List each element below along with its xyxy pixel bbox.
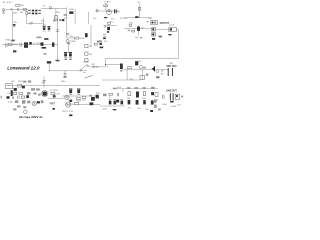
wire PI vert <box>137 25 139 35</box>
capacitor C35 faint <box>143 100 146 104</box>
svg-text:HI LO: HI LO <box>7 2 13 4</box>
svg-text:STBY: STBY <box>83 62 89 64</box>
resistor R20 <box>155 93 158 97</box>
capacitor C28 <box>162 95 164 99</box>
wire psu mid <box>48 97 64 99</box>
jack tip mark <box>181 96 183 98</box>
resistor R21 <box>74 102 78 104</box>
svg-text:1M: 1M <box>21 5 24 7</box>
svg-text:8R: 8R <box>92 64 95 66</box>
wire plate <box>41 7 66 9</box>
resistor R3 <box>23 9 27 11</box>
dark mark right of lamp <box>37 101 40 103</box>
pot VR2 <box>96 9 98 12</box>
tube V1b plate bars <box>35 10 37 12</box>
wire spk <box>159 68 168 70</box>
tube V1a grid bars <box>28 9 30 11</box>
svg-text:bias: bias <box>130 78 134 80</box>
connector P2 dark <box>11 90 13 96</box>
edge mark faint <box>1 96 2 99</box>
dark mark <box>100 47 104 49</box>
resistor R8 <box>129 25 132 27</box>
svg-text:SPK OUT: SPK OUT <box>166 66 177 68</box>
psu row2 <box>7 96 10 99</box>
resistor R16 <box>13 92 17 94</box>
wire row3 <box>124 28 152 30</box>
svg-text:TONE: TONE <box>70 41 76 43</box>
cathode resistor R4 <box>26 11 28 14</box>
dark mark below 6.3V box <box>53 95 56 97</box>
wire volume drop <box>55 8 57 19</box>
capacitor C9 dark <box>107 27 110 30</box>
wire pair <box>74 9 76 24</box>
svg-text:HTR: HTR <box>14 102 19 104</box>
switch SW3 diagonal <box>85 75 93 78</box>
capacitor C31 electrolytic <box>113 99 116 101</box>
resistor R13 <box>85 44 88 47</box>
resistor R39 <box>85 58 88 61</box>
capacitor C12 <box>5 43 7 47</box>
svg-text:fb 47k: fb 47k <box>136 61 143 63</box>
marks small <box>146 74 149 76</box>
wire corner <box>49 64 86 71</box>
resistor R1 68k <box>16 5 20 7</box>
marks above text <box>43 80 46 82</box>
svg-text:100R: 100R <box>171 106 176 108</box>
ground mid <box>55 59 59 61</box>
svg-text:47u 450V: 47u 450V <box>65 104 75 106</box>
speaker circle <box>156 70 159 73</box>
capacitor C17 electrolytic <box>69 52 72 54</box>
resistor R15 <box>128 67 132 69</box>
psu chain marks rail <box>127 87 130 89</box>
capacitor C33 dark <box>128 100 131 104</box>
wire drop right <box>141 69 143 80</box>
resistor R17 <box>109 93 113 95</box>
ground jack <box>168 34 171 36</box>
lamp LP3 upper <box>65 95 70 100</box>
svg-text:all caps 630V dc: all caps 630V dc <box>19 115 43 119</box>
marks top screen <box>67 42 70 44</box>
capacitor C25 dark <box>116 100 119 103</box>
marks right <box>103 94 107 97</box>
svg-text:FUSE: FUSE <box>8 93 14 95</box>
rectifier V2 envelope <box>42 91 48 97</box>
capacitor C36 dark <box>151 100 154 104</box>
svg-text:GND: GND <box>5 39 10 41</box>
tube pin circle <box>139 66 142 69</box>
svg-text:450V: 450V <box>77 100 82 102</box>
mark dark <box>69 114 72 116</box>
wire drop mid <box>57 22 59 60</box>
node dot <box>49 6 52 9</box>
wire cathode bus <box>27 23 44 25</box>
svg-text:PT 325V: PT 325V <box>50 90 59 92</box>
switch SW1 <box>80 70 81 71</box>
wire drop left <box>126 69 128 80</box>
pot VR1 volume <box>55 16 58 20</box>
marks right <box>41 100 44 103</box>
capacitor C41 dark tail <box>85 33 88 37</box>
capacitor C5 <box>114 9 116 13</box>
ground symbol <box>11 39 15 41</box>
resistor mid small <box>92 66 95 68</box>
resistor R19 <box>143 92 145 96</box>
capacitor C19 dark <box>120 64 123 70</box>
capacitor C40 ticks tail <box>66 32 69 34</box>
jack stack box2 <box>152 28 156 31</box>
marks on rail <box>113 88 116 90</box>
wire cathode feed <box>43 18 45 27</box>
resistor R7 <box>108 22 111 24</box>
small mark left <box>158 109 161 111</box>
capacitor C23 electrolytic <box>69 88 72 90</box>
wire down right <box>90 25 92 46</box>
small lamp circle <box>24 110 28 114</box>
dark blob <box>90 102 94 105</box>
switch SW2 cluster <box>18 84 22 87</box>
wire bottom bus <box>102 79 140 81</box>
transformer T2 core dark <box>43 92 47 96</box>
svg-text:230V: 230V <box>18 81 23 83</box>
jack J1 input <box>2 9 4 11</box>
cluster below1 <box>69 100 72 102</box>
capacitor C26 dark <box>136 92 139 98</box>
svg-text:0.5A: 0.5A <box>8 101 13 104</box>
mark below <box>53 108 55 110</box>
transformer T1 dark <box>24 42 28 47</box>
wire tail <box>67 37 75 39</box>
svg-text:350V: 350V <box>13 44 18 46</box>
svg-text:16R: 16R <box>169 63 173 65</box>
rectifier V3 dark <box>96 95 99 99</box>
wire right <box>87 12 89 24</box>
capacitor C11 <box>100 43 102 45</box>
ground output <box>159 35 163 37</box>
lamp LP1 <box>32 101 36 105</box>
faint mark <box>44 53 47 55</box>
capacitor C32 electrolytic <box>120 99 123 101</box>
wire grid rail <box>124 17 152 19</box>
capacitor C24 electrolytic <box>77 88 80 90</box>
wire psu rail <box>62 95 96 97</box>
svg-text:to spk: to spk <box>169 24 176 27</box>
svg-text:hum: hum <box>177 104 181 106</box>
rectifier cluster dark <box>91 97 95 101</box>
dark mark <box>150 110 153 112</box>
resistor R2 grid stopper <box>10 9 12 11</box>
ground2 <box>104 16 107 18</box>
wire feedback <box>106 30 179 65</box>
capacitor C22 big <box>167 68 169 76</box>
cluster below3 <box>82 96 85 98</box>
ground spk <box>156 76 160 78</box>
wire heater cap row <box>100 105 125 107</box>
capacitor C16 electrolytic <box>64 52 67 54</box>
mark below <box>107 31 109 33</box>
jack J2 main <box>169 27 176 31</box>
dark mark below <box>152 38 155 40</box>
svg-text:Lonewand 12.0: Lonewand 12.0 <box>7 65 40 70</box>
resistor R11 <box>9 43 13 45</box>
resistor R5 <box>104 5 108 7</box>
svg-text:6.3V: 6.3V <box>56 93 61 95</box>
marks small <box>128 30 130 31</box>
wire input <box>5 8 29 10</box>
wire heater <box>79 104 100 106</box>
resistor R14 <box>85 52 88 55</box>
marks comp <box>143 67 146 69</box>
pot circle tail <box>66 39 69 42</box>
capacitor C14 <box>41 42 44 45</box>
wire lamp drop <box>43 77 45 88</box>
svg-text:B+1: B+1 <box>59 19 64 22</box>
wire stage2 <box>95 10 120 12</box>
mark below C19 <box>120 70 122 72</box>
tube V2 circle <box>107 10 112 15</box>
resistor R18 <box>128 92 131 96</box>
svg-text:HT: HT <box>51 102 55 105</box>
transformer T2 cluster <box>31 88 35 90</box>
svg-text:B+ 320V: B+ 320V <box>33 43 42 45</box>
capacitor C2 on leak <box>13 24 16 26</box>
marks left of core <box>34 93 37 95</box>
wire vert <box>53 94 55 98</box>
connector P1 box <box>5 84 12 89</box>
speaker SPK arrow <box>152 66 156 71</box>
wire drop <box>122 89 124 92</box>
wire B+ rail <box>2 44 58 46</box>
svg-text:AC: AC <box>12 80 15 83</box>
svg-text:SW: SW <box>42 83 45 85</box>
capacitor C20 dark <box>135 61 138 65</box>
svg-text:100R: 100R <box>162 104 167 106</box>
capacitor C15 <box>52 42 54 46</box>
resistor R12 dark <box>13 50 16 52</box>
wire cathode drop <box>26 15 28 24</box>
capacitor C21 <box>140 76 145 80</box>
capacitor C13 <box>19 43 21 47</box>
resistor R10 <box>94 43 97 45</box>
capacitor C34 dark <box>136 100 139 105</box>
capacitor C1 <box>17 8 19 11</box>
wire screen2 <box>68 43 70 53</box>
svg-text:B+2: B+2 <box>54 19 59 22</box>
marks left arrow <box>104 25 106 27</box>
wire grid leak <box>12 11 14 41</box>
capacitor C6 <box>135 16 138 18</box>
mark small2 <box>140 37 142 38</box>
cluster below2 <box>77 98 81 100</box>
svg-text:PILOT 6.3V: PILOT 6.3V <box>62 111 73 113</box>
capacitor C3 dark <box>69 11 73 14</box>
capacitor C18 to ground <box>64 71 66 73</box>
capacitor C29 big <box>169 93 171 100</box>
capacitor C10 dark <box>137 27 140 31</box>
capacitor C7 electrolytic <box>43 26 46 28</box>
psu comps <box>19 92 22 94</box>
capacitor C8 electrolytic <box>47 26 50 28</box>
capacitor C30 electrolytic <box>109 99 112 101</box>
ground line out <box>170 101 173 103</box>
diode D1 dark <box>42 47 47 49</box>
jack J4 box <box>175 94 180 99</box>
wire to output tube <box>88 66 108 68</box>
svg-text:NFB: NFB <box>97 40 102 43</box>
jack stack box3 <box>152 33 156 36</box>
fuse F1 dark <box>14 88 17 91</box>
wire stage2 drop <box>66 7 68 38</box>
wire out <box>156 28 169 30</box>
wire PI drop <box>139 4 141 18</box>
marks faint left <box>36 37 41 39</box>
wire plate2 <box>105 7 107 12</box>
box right <box>51 92 55 94</box>
wire psu right rail <box>112 88 158 90</box>
tick before HT <box>49 102 51 103</box>
lamp LP2 <box>66 102 71 107</box>
svg-text:LINE OUT: LINE OUT <box>166 90 177 92</box>
resistor R6 on drop <box>138 8 140 11</box>
capacitor ticks on drop <box>56 29 59 31</box>
jack sleeve mark <box>3 12 5 13</box>
right chain <box>154 100 157 103</box>
marks psu top3 <box>23 81 26 83</box>
ground dark <box>103 37 106 39</box>
capacitor C27 dark <box>151 92 154 95</box>
wire mid <box>104 24 117 26</box>
resistor R40 tail <box>75 37 80 39</box>
capacitor C4 ticks <box>64 13 67 15</box>
ground bar <box>44 38 48 40</box>
ground mark <box>62 19 64 21</box>
dark blob corner <box>47 61 51 63</box>
resistor R9 <box>132 30 135 32</box>
jack stack box1 <box>151 21 158 25</box>
ground heater <box>113 109 117 111</box>
comps right <box>116 93 118 97</box>
wire mains bus <box>13 85 100 87</box>
